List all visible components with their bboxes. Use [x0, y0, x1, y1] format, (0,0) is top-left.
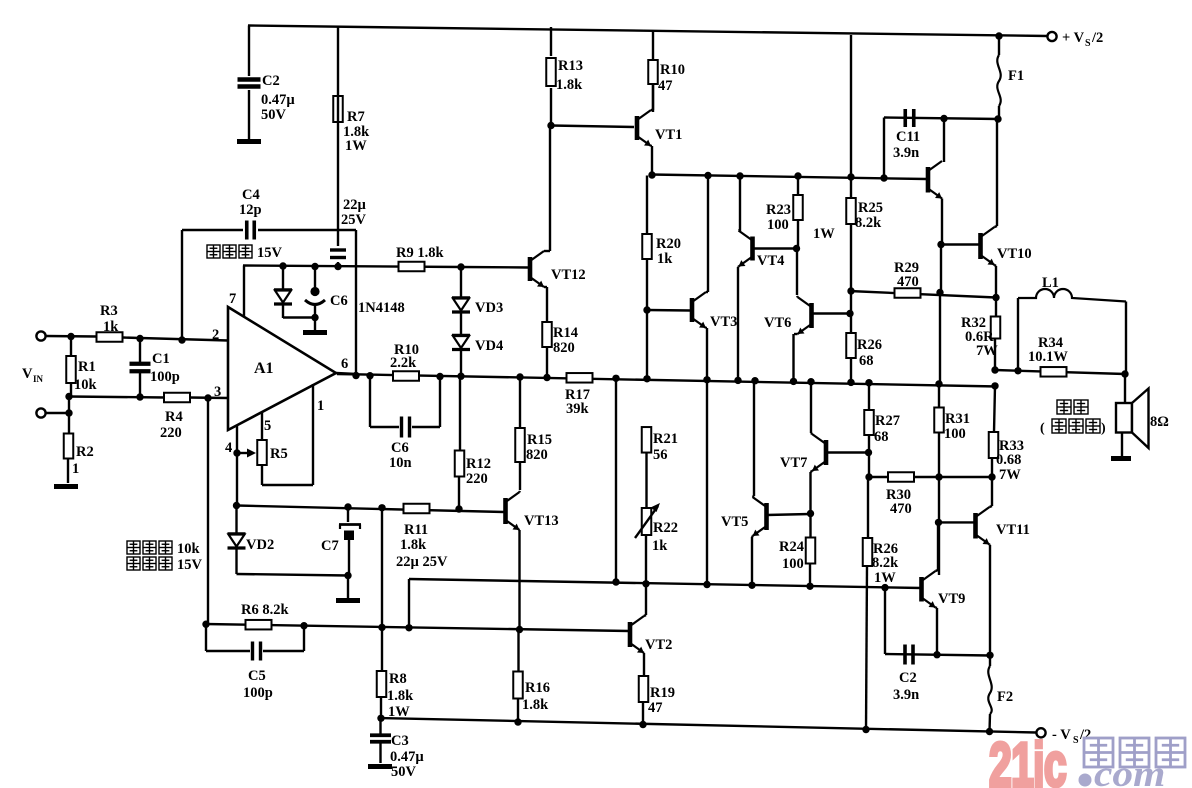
- wire R12 branch: [459, 376, 460, 509]
- label C5: [243, 668, 273, 701]
- zener diode at pin7: [274, 290, 292, 305]
- svg-text:1k: 1k: [103, 319, 119, 335]
- label zener note 15V: [207, 245, 283, 261]
- wire bias row (VT9 base row): [409, 579, 921, 588]
- wire pin3 to R6 row: [205, 398, 208, 624]
- transistor VT9: [922, 571, 936, 608]
- label pin 3: [214, 384, 221, 400]
- label R17: [565, 387, 590, 417]
- label R27: [874, 413, 900, 445]
- wire R33 branch: [992, 386, 995, 458]
- label F1: [1008, 68, 1024, 84]
- label C4: [239, 187, 262, 218]
- svg-text:50V: 50V: [261, 107, 287, 123]
- svg-text:R21: R21: [653, 431, 678, 447]
- resistor R33: [989, 432, 999, 458]
- wire pin3 row: [69, 397, 228, 399]
- svg-text:R6 8.2k: R6 8.2k: [241, 602, 289, 618]
- label pin 6: [341, 356, 348, 372]
- svg-text:100p: 100p: [150, 369, 180, 385]
- junction dot R14 bottom: [543, 374, 550, 381]
- svg-text:VT12: VT12: [551, 267, 586, 283]
- wire R10-47 branch: [652, 31, 654, 112]
- wire bias corner up: [408, 579, 410, 628]
- svg-text:VD3: VD3: [475, 300, 503, 316]
- label VT5: [721, 514, 748, 530]
- wire pin4 drop: [236, 425, 238, 506]
- label R9: [396, 245, 444, 261]
- junction dot VD3 top: [457, 263, 464, 270]
- capacitor C5: [253, 642, 261, 661]
- svg-text:R9 1.8k: R9 1.8k: [396, 245, 444, 261]
- svg-text:C5: C5: [248, 668, 266, 684]
- watermark dianzi wang: [1084, 738, 1185, 767]
- label 1N4148: [358, 300, 405, 316]
- junction dots main row right: [643, 375, 998, 390]
- transistor VT2: [630, 616, 644, 653]
- label pin 5: [264, 418, 271, 434]
- wire C2 left: [884, 588, 886, 654]
- svg-text:/2: /2: [1091, 30, 1103, 46]
- capacitor C3: [370, 735, 391, 742]
- label R34: [1028, 335, 1068, 365]
- resistor R4: [164, 393, 190, 403]
- svg-text:68: 68: [859, 353, 874, 369]
- wire R14 branch: [546, 347, 548, 378]
- junction dot VT4 base R23: [793, 245, 800, 252]
- svg-text:R1: R1: [78, 359, 96, 375]
- label R1: [74, 359, 98, 393]
- wire C2 3.9n row: [885, 654, 990, 656]
- svg-text:100: 100: [767, 217, 789, 233]
- wire C7 stub: [348, 507, 349, 576]
- speaker load: [1116, 389, 1149, 449]
- svg-text:7: 7: [229, 291, 236, 307]
- svg-text:7W: 7W: [999, 467, 1021, 483]
- inductor L1: [1018, 289, 1126, 302]
- junction dot R19 bottom: [639, 721, 646, 728]
- transistor VT6: [798, 297, 812, 334]
- wire speaker ground stub: [1121, 433, 1123, 457]
- wire VT1 emitter stub: [651, 146, 652, 175]
- resistor R9: [399, 262, 425, 272]
- ground under C3: [368, 764, 392, 769]
- svg-text:3.9n: 3.9n: [893, 687, 919, 703]
- terminal input top: [36, 331, 45, 340]
- svg-text:1.8k: 1.8k: [522, 697, 549, 713]
- svg-text:22µ: 22µ: [343, 197, 367, 213]
- wire VT5 emitter: [751, 536, 754, 585]
- svg-text:10k: 10k: [74, 377, 98, 393]
- wire upper bias row 175: [651, 175, 926, 180]
- wire R27 branch: [868, 383, 870, 477]
- svg-text:VT13: VT13: [524, 513, 559, 529]
- wire R29 row: [849, 291, 996, 298]
- wire VT11 collector: [990, 458, 993, 507]
- svg-text:A1: A1: [254, 360, 274, 377]
- svg-text:1.8k: 1.8k: [387, 688, 414, 704]
- svg-text:8.2k: 8.2k: [872, 555, 899, 571]
- wire VT1 collector stub: [651, 84, 653, 110]
- svg-text:6: 6: [341, 356, 348, 372]
- label potentiometer note: [127, 541, 203, 573]
- wire R34 row: [995, 370, 1125, 374]
- junction dots R34 row: [991, 366, 1128, 377]
- label F2: [997, 689, 1013, 705]
- svg-text:com: com: [1094, 754, 1165, 788]
- svg-text:R14: R14: [553, 325, 578, 341]
- wire VD2 stub: [237, 506, 349, 576]
- wire C2 branch: [248, 26, 250, 140]
- svg-text:R25: R25: [858, 200, 883, 216]
- junction dot VD2 top: [233, 502, 240, 509]
- wire C6 stub: [314, 267, 316, 331]
- junction dot C7 bottom: [344, 572, 351, 579]
- label -Vs/2: [1052, 727, 1091, 746]
- resistor R7: [333, 96, 343, 122]
- capacitor C11: [905, 109, 914, 127]
- svg-text:12p: 12p: [239, 202, 262, 218]
- label R19: [648, 685, 675, 716]
- svg-text:68: 68: [874, 429, 889, 445]
- svg-text:0.47µ: 0.47µ: [261, 92, 295, 108]
- arrow to R5: [240, 449, 256, 458]
- junction dot R20 bottom: [643, 306, 650, 313]
- wire R23 branch: [797, 176, 798, 295]
- svg-text:VT9: VT9: [938, 591, 965, 607]
- label VT2: [645, 637, 672, 653]
- wire R16 branch: [517, 631, 520, 722]
- wire input top: [46, 335, 96, 338]
- svg-text:5: 5: [264, 418, 271, 434]
- svg-text:R15: R15: [527, 432, 552, 448]
- resistor R20: [642, 234, 652, 259]
- svg-text:56: 56: [653, 447, 668, 463]
- svg-text:22µ 25V: 22µ 25V: [396, 554, 448, 570]
- label R10 47: [658, 62, 685, 94]
- junction dot VT6 base: [846, 310, 853, 317]
- wire R24 branch: [809, 514, 812, 587]
- resistor R31: [934, 408, 944, 433]
- wire VT1 base row: [551, 126, 634, 128]
- svg-text:10k: 10k: [177, 541, 201, 557]
- label VIN: [22, 366, 44, 384]
- label VT10: [997, 246, 1032, 262]
- wire VT5 base: [767, 514, 811, 515]
- svg-text:R5: R5: [270, 446, 288, 462]
- capacitor 22u on R7 line: [330, 250, 346, 258]
- wire VT3 base: [647, 309, 690, 312]
- wire VT3 emitter: [706, 328, 707, 585]
- svg-text:VT5: VT5: [721, 514, 748, 530]
- svg-text:R11: R11: [404, 522, 428, 538]
- wire C5 loop: [206, 624, 304, 651]
- resistor R12: [455, 451, 465, 477]
- wire R7 branch: [337, 27, 339, 267]
- wire C1 stubs: [139, 339, 141, 398]
- capacitor C4: [247, 221, 255, 240]
- svg-text:8Ω: 8Ω: [1150, 414, 1169, 430]
- wire VT9 collector: [936, 522, 939, 571]
- label C6 10n: [389, 440, 412, 471]
- resistor R16: [513, 672, 523, 699]
- wire VT4 base: [753, 247, 797, 249]
- junction dots input: [65, 333, 211, 417]
- wire pin1 loop: [262, 384, 313, 485]
- svg-text:470: 470: [890, 501, 912, 517]
- svg-text:VT4: VT4: [757, 253, 784, 269]
- svg-text:R4: R4: [165, 409, 183, 425]
- label R24: [779, 539, 804, 572]
- resistor R2: [64, 434, 74, 459]
- resistor R17: [567, 373, 593, 383]
- svg-text:R24: R24: [779, 539, 804, 555]
- svg-text:V: V: [22, 366, 33, 382]
- label R15: [526, 432, 552, 463]
- resistor R14: [542, 322, 552, 347]
- label C11: [893, 129, 920, 161]
- svg-text:VT6: VT6: [764, 315, 791, 331]
- svg-text:R20: R20: [656, 236, 681, 252]
- capacitor C7 electrolytic: [339, 525, 361, 541]
- wire C11 left: [883, 118, 885, 179]
- wire VT10 base: [941, 243, 979, 245]
- terminal +Vs/2: [1047, 32, 1056, 41]
- wire F2 bottom: [988, 714, 991, 732]
- wire VT7 emitter: [811, 471, 813, 514]
- svg-text:R13: R13: [558, 58, 583, 74]
- svg-text:C4: C4: [242, 187, 260, 203]
- transistor VT4: [739, 231, 753, 267]
- wire VT9 emitter: [936, 608, 938, 655]
- junction dot R26 bottom rail: [862, 726, 869, 733]
- wire R15 branch: [519, 377, 521, 490]
- wire zener stub: [282, 266, 284, 318]
- label 1W mid: [813, 226, 835, 242]
- svg-text:R7: R7: [347, 109, 365, 125]
- junction dot VT11 base: [935, 519, 942, 526]
- wire R22 bottom: [645, 535, 647, 584]
- resistor R26 8.2k: [863, 538, 873, 566]
- svg-text:100: 100: [944, 426, 966, 442]
- svg-text:1W: 1W: [813, 226, 835, 242]
- svg-text:R23: R23: [766, 202, 791, 218]
- svg-text:R19: R19: [650, 685, 675, 701]
- svg-text:1W: 1W: [388, 704, 410, 720]
- junction dot R17 right: [612, 375, 619, 382]
- label VT6: [764, 315, 791, 331]
- resistor R22: [642, 508, 652, 535]
- wire C6-10n loop: [370, 376, 440, 427]
- wire C4 right: [258, 230, 356, 376]
- arrow R22: [635, 503, 660, 538]
- wire R20 branch: [646, 176, 648, 380]
- label pin 4: [225, 440, 232, 456]
- wire R13 branch: [550, 27, 552, 125]
- svg-text:R2: R2: [76, 444, 94, 460]
- wire R3 to pin2: [123, 338, 228, 341]
- junction dot R6 right: [300, 622, 307, 629]
- svg-text:1: 1: [72, 461, 79, 477]
- resistor R24: [806, 538, 816, 564]
- label R3: [100, 303, 119, 335]
- ground under C6: [303, 330, 327, 335]
- wire R11 row: [237, 506, 504, 513]
- label C2: [261, 73, 295, 123]
- label VT9: [938, 591, 965, 607]
- diode VD3: [452, 298, 470, 313]
- junction dot VT10 base: [937, 241, 944, 248]
- junction dot R15 top: [516, 373, 523, 380]
- zener diode VD2: [228, 534, 246, 549]
- svg-text:1.8k: 1.8k: [400, 537, 427, 553]
- capacitor C1: [130, 364, 151, 372]
- svg-text:21ic: 21ic: [989, 731, 1066, 788]
- wire VT7 base: [826, 451, 868, 453]
- svg-text:0.47µ: 0.47µ: [390, 749, 424, 765]
- wire R2 branch: [68, 397, 69, 484]
- svg-text:VT11: VT11: [996, 522, 1030, 538]
- junction dots C6 loop: [366, 372, 443, 380]
- label pin 7: [229, 291, 236, 307]
- wire input bottom: [46, 412, 69, 414]
- resistor R1: [66, 356, 76, 383]
- label R20: [656, 236, 681, 267]
- svg-text:25V: 25V: [341, 212, 367, 228]
- junction dot R16 bottom: [514, 718, 521, 725]
- wire zener-C6 bottom: [283, 316, 315, 318]
- junction dot R17 drop bottom: [612, 578, 619, 585]
- svg-text:IN: IN: [33, 374, 44, 384]
- label R33: [996, 438, 1024, 483]
- label R23: [766, 202, 791, 233]
- junction dots R29 row: [847, 287, 999, 301]
- junction dot R22 bias: [642, 580, 649, 587]
- svg-text:C6: C6: [330, 293, 348, 309]
- svg-text:R26: R26: [857, 337, 882, 353]
- junction dot VT13 emitter row: [516, 626, 523, 633]
- wire C11 row: [884, 118, 999, 120]
- svg-text:C2: C2: [899, 670, 917, 686]
- fuse F1: [997, 55, 1000, 106]
- junction dots bias row: [703, 581, 888, 592]
- junction dot C4 output: [352, 372, 359, 379]
- label R31: [944, 411, 970, 442]
- svg-text:7W: 7W: [976, 343, 998, 359]
- wire VT11 emitter: [988, 545, 991, 656]
- watermark com: [1094, 754, 1165, 788]
- label L1: [1042, 275, 1059, 291]
- label R26 8.2k: [872, 541, 899, 586]
- svg-text:(: (: [1040, 421, 1045, 436]
- wire VT10 collector: [995, 119, 998, 227]
- label VD4: [475, 338, 503, 354]
- capacitor C2: [238, 80, 261, 87]
- wire VT10 emitter: [995, 265, 997, 298]
- svg-text:L1: L1: [1042, 275, 1059, 291]
- capacitor C6 electrolytic: [305, 287, 325, 305]
- label R22: [652, 520, 678, 554]
- transistor VT10: [981, 227, 995, 265]
- svg-text:10n: 10n: [389, 455, 412, 471]
- label R14: [553, 325, 578, 356]
- junction dot R8 bottom: [377, 715, 384, 722]
- label C2 3.9n: [893, 670, 919, 703]
- label R10 2.2k: [390, 342, 419, 371]
- svg-text:4: 4: [225, 440, 232, 456]
- wire rail drop to R25: [850, 35, 852, 383]
- svg-text:2.2k: 2.2k: [390, 355, 417, 371]
- transistor VT3: [692, 292, 706, 328]
- resistor R15: [515, 428, 525, 462]
- label VT12: [551, 267, 586, 283]
- svg-text:15V: 15V: [257, 245, 283, 261]
- resistor R26 68: [846, 333, 856, 358]
- capacitor C6 10n: [402, 417, 410, 438]
- label R12: [466, 456, 491, 487]
- junction dot F2 rail: [986, 728, 993, 735]
- label R29: [894, 260, 919, 290]
- ground under R2: [54, 484, 78, 489]
- wire L1 right drop: [1125, 302, 1126, 404]
- label R25: [855, 200, 883, 231]
- label R13: [556, 58, 583, 93]
- resistor R25: [846, 198, 856, 224]
- junction dot VD4 bottom: [457, 373, 464, 380]
- wire op-amp pin7 / R9 row: [243, 266, 462, 268]
- svg-text:+ V: + V: [1062, 30, 1085, 46]
- svg-text:VD4: VD4: [475, 338, 503, 354]
- svg-text:1k: 1k: [652, 538, 668, 554]
- wire VT11 base: [939, 521, 975, 523]
- wire pin5 stub: [261, 412, 263, 440]
- terminal -Vs/2: [1036, 728, 1045, 737]
- label C1: [150, 351, 180, 385]
- wire R30 row: [869, 476, 992, 478]
- svg-text:S: S: [1073, 735, 1079, 746]
- label 8ohm: [1150, 414, 1169, 430]
- label R6: [241, 602, 289, 618]
- svg-text:C2: C2: [262, 73, 280, 89]
- label VT7: [780, 455, 807, 471]
- wire VT6 emitter: [794, 334, 798, 382]
- label VT13: [524, 513, 559, 529]
- resistor R29: [895, 288, 921, 298]
- label C7: [321, 538, 339, 554]
- wire R8 branch: [381, 508, 382, 718]
- wire R6 / VT2 base row: [205, 624, 629, 631]
- svg-text:C6: C6: [391, 440, 409, 456]
- label VT1: [655, 127, 682, 143]
- wire R7 body stub: [337, 96, 339, 122]
- wire VT12 collector: [544, 125, 550, 251]
- svg-text:VT2: VT2: [645, 637, 672, 653]
- svg-text:1W: 1W: [345, 138, 367, 154]
- resistor R3: [97, 332, 123, 342]
- junction dots pin7 row: [279, 262, 341, 321]
- label pin 2: [212, 327, 219, 343]
- junction dot VT5 base R24: [807, 510, 814, 517]
- resistor R10 2.2k: [393, 371, 419, 381]
- svg-text:47: 47: [658, 78, 673, 94]
- junction dot R8 cross: [378, 624, 385, 631]
- fuse F2: [988, 655, 991, 714]
- svg-text:0.68: 0.68: [996, 452, 1021, 468]
- svg-text:S: S: [1085, 38, 1091, 49]
- label +Vs/2: [1062, 30, 1103, 49]
- label R8: [387, 671, 414, 720]
- svg-text:820: 820: [553, 340, 575, 356]
